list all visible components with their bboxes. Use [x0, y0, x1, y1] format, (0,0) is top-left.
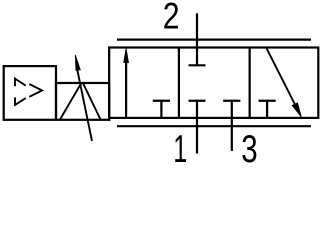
- amplifier triangle bottom corner: [15, 98, 25, 105]
- blocked port 3 (left position): [153, 101, 170, 118]
- position divider 2: [249, 48, 251, 118]
- amplifier chevron >: [30, 85, 42, 97]
- blocked port 3 (mid position): [223, 100, 240, 102]
- port 1 connection line: [196, 101, 198, 154]
- position divider 1: [178, 48, 180, 118]
- svg-text:2: 2: [163, 0, 180, 37]
- flow arrow 2->3 head: [292, 103, 301, 117]
- valve body: [109, 48, 318, 118]
- blocked port 2 (mid position): [189, 64, 206, 66]
- nozzle actuator box: [56, 83, 109, 120]
- blocked port 1 (right position): [259, 101, 276, 118]
- valve body left edge extension to box bottom: [108, 118, 110, 121]
- svg-text:1: 1: [173, 126, 187, 165]
- port 3 connection line: [231, 101, 233, 151]
- nozzle left slant: [60, 84, 81, 120]
- actuation arrow head: [75, 55, 80, 70]
- proportional rail bottom: [117, 125, 311, 127]
- pilot amplifier box (actuation): [4, 66, 56, 120]
- blocked port 1 (mid position): [189, 100, 206, 102]
- svg-text:3: 3: [241, 128, 257, 165]
- actuation arrow shaft: [77, 66, 93, 141]
- proportional rail top: [117, 38, 311, 40]
- port 2 connection line: [196, 13, 198, 65]
- flow arrow 1->2 shaft (left position): [125, 61, 127, 118]
- flow arrow 2->3 shaft (right position): [267, 48, 297, 107]
- nozzle right slant: [83, 84, 100, 120]
- flow arrow 1->2 head: [124, 49, 129, 63]
- amplifier triangle top corner: [15, 79, 25, 86]
